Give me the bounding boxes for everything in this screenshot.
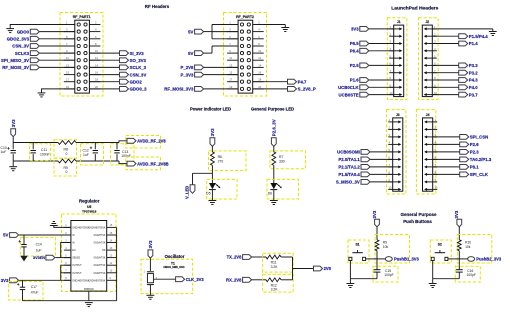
svg-text:3.2K: 3.2K (271, 265, 279, 269)
svg-text:20: 20 (95, 85, 98, 89)
net label P2.0/TA1.1 (338, 157, 360, 162)
wire junction to RF_PART2 pin3 (212, 31, 238, 33)
power tag 3V3 filter (11, 119, 16, 143)
wire 5V to U6 pin2 (19, 234, 71, 236)
svg-text:GND/HTSK: GND/HTSK (94, 243, 106, 245)
General Purpose LED section title (251, 107, 294, 112)
resistor R10 enclosure (457, 235, 492, 264)
wire S1 to output junction (366, 258, 377, 260)
svg-text:16: 16 (95, 71, 98, 75)
wire filter top rail right (76, 142, 119, 144)
svg-text:P3.3: P3.3 (469, 63, 478, 68)
wire J2 to net P3.3 (432, 64, 458, 66)
svg-text:J3: J3 (396, 113, 400, 117)
header J4 enclosure (416, 110, 435, 194)
wire R10 to junction (458, 251, 460, 259)
node tag AVDD_RF_2V8 (127, 138, 136, 143)
svg-text:UCB0STE: UCB0STE (339, 92, 359, 97)
svg-text:IN: IN (72, 243, 75, 245)
svg-text:17: 17 (229, 78, 232, 82)
node tag P_2V8 (195, 65, 204, 70)
svg-text:SPI_CLK: SPI_CLK (470, 172, 489, 177)
svg-text:P1.5/P4.4: P1.5/P4.4 (469, 34, 488, 39)
svg-text:C17: C17 (31, 285, 37, 289)
node tag SPI_MISO_3V (30, 58, 39, 63)
svg-text:GDO2: GDO2 (130, 79, 143, 84)
svg-text:RF_PART1: RF_PART1 (73, 15, 91, 19)
svg-text:EN: EN (72, 250, 76, 252)
node tag S_2V8_P (288, 87, 297, 92)
wire to AVDD bottom tag (119, 161, 127, 164)
node tag GDO2_3V3 (30, 36, 39, 41)
net label UCB0STE (339, 92, 359, 97)
svg-text:0: 0 (66, 170, 68, 174)
svg-text:12: 12 (95, 56, 98, 60)
svg-text:3V3: 3V3 (1, 278, 9, 283)
net label SPI_MISO_3V (1, 58, 29, 63)
svg-text:S1: S1 (355, 243, 359, 247)
resistor R8 (58, 141, 76, 156)
node tag UCB0CLK (360, 85, 369, 90)
svg-text:12: 12 (258, 56, 261, 60)
svg-text:U6: U6 (87, 205, 91, 209)
node tag 2V8 (314, 266, 323, 271)
net label P2.6 (470, 142, 479, 147)
node tag 5V supply B (195, 51, 204, 56)
ground at oscillator Y1 (147, 295, 155, 299)
wire J4 to net P8.1 (433, 166, 460, 168)
net label P6.5 (350, 41, 359, 46)
resistor R9 (375, 240, 388, 251)
net label P1.6 (350, 78, 359, 83)
header J1 refdes label (397, 20, 401, 24)
capacitor C15 (374, 269, 394, 279)
net label SI_3V3 (130, 51, 145, 56)
node tag B_2V8 (243, 277, 252, 282)
switch S1 enclosure (348, 240, 369, 263)
ground at RF_PART1 pin 19 (38, 93, 46, 97)
svg-text:1uF: 1uF (1, 150, 7, 154)
wire RF_PART1 to net GDO0_3 (89, 88, 119, 90)
svg-text:S2: S2 (438, 243, 442, 247)
node tag P_3V3 (195, 72, 204, 77)
wire R9 to junction (376, 251, 378, 259)
net label P4.3 (469, 78, 478, 83)
header J4 body (423, 118, 433, 191)
node tag CSN_3V (120, 72, 129, 77)
power tag 3V3 for S2 (454, 210, 462, 240)
LED D5 enclosure (207, 179, 237, 199)
wire RF_PART1 to net SO_3V3 (89, 59, 119, 61)
svg-text:100pF: 100pF (467, 273, 476, 277)
net label SPI_CSN (470, 135, 488, 140)
wire J4 to net P2.3 (433, 151, 460, 153)
net label GDO0_3 (130, 87, 148, 92)
ground at RF_PART2 pin 2 (281, 25, 289, 32)
wire RF_PART2 to net P4.7 (253, 81, 288, 83)
wire net UCB0STE to J1 (369, 94, 394, 96)
node tag SCLK_3 (120, 65, 129, 70)
header J3 body (393, 118, 403, 191)
net label S_2V8 (227, 255, 243, 260)
header J1 body (394, 25, 404, 97)
svg-text:CLK_3V3: CLK_3V3 (186, 277, 205, 282)
op-amp U6 body (71, 221, 107, 292)
svg-text:CMOS_SMD_OSC: CMOS_SMD_OSC (163, 266, 184, 269)
node tag V_LED (190, 185, 195, 194)
svg-text:P2.5: P2.5 (350, 63, 359, 68)
wire junction to RF_PART2 pin7 (212, 45, 238, 47)
node tag P8.1 (460, 165, 469, 170)
wire regulator ground rail (23, 300, 117, 302)
power tag 3V3 oscillator (148, 240, 153, 271)
svg-text:C11: C11 (41, 148, 47, 152)
regulator U6 pins and pin names (64, 224, 117, 291)
svg-text:RF_MOSI_3V: RF_MOSI_3V (2, 65, 29, 70)
svg-text:SENSE: SENSE (72, 258, 80, 260)
wire J4 to net P2.6 (433, 143, 460, 145)
svg-text:UCB0SOMI: UCB0SOMI (337, 150, 360, 155)
wire J2 to net P3.7 (432, 94, 458, 96)
node tag CLK_3V3 (176, 277, 185, 282)
svg-text:3V3: 3V3 (148, 240, 153, 248)
wire net P1.5/TA0.4 to J3 (370, 173, 393, 175)
wire LED D5 to ground (211, 190, 213, 201)
node tag P1.4 (459, 41, 468, 46)
ground arrow at C14 (20, 256, 28, 262)
power tag 3V3 for S1 (372, 210, 380, 240)
svg-text:S_MISO_3V: S_MISO_3V (336, 180, 360, 185)
net label P2.3 (470, 150, 479, 155)
node tag AVDD top enclosure (126, 136, 161, 149)
wire net RF_MOSI_3V to RF_PART1 (39, 66, 75, 68)
wire RF_PART1 to net GDO2 (89, 81, 119, 83)
header J3 refdes label (396, 113, 400, 117)
RF Headers section title (145, 4, 170, 9)
svg-text:10: 10 (258, 49, 261, 53)
wire junction to C16 (458, 259, 460, 270)
svg-text:RX_2V8: RX_2V8 (226, 278, 242, 283)
svg-text:100nF: 100nF (40, 153, 50, 157)
capacitor C16 (456, 269, 476, 279)
power tag 3V3 for LED D5 (210, 128, 215, 152)
wire net UCB0SOMI to J3 (370, 151, 393, 153)
svg-text:P2.0/TA1.1: P2.0/TA1.1 (338, 157, 360, 162)
wire LED D6 to ground (273, 190, 275, 201)
RF header connector RF_PART2 enclosure (224, 13, 267, 97)
svg-text:RF Headers: RF Headers (145, 4, 170, 9)
node tag 3V3 output (10, 278, 19, 283)
header J4 pins with arrows and pin numbers (424, 118, 438, 191)
net label P4.0 (469, 85, 478, 90)
svg-text:GND/HTSK: GND/HTSK (94, 235, 106, 237)
node tag P4.7 (288, 79, 297, 84)
resistor R9A enclosure (54, 158, 77, 176)
node tag P6.5 (360, 41, 369, 46)
node tag S_2V8 (243, 255, 252, 260)
wire 5V tag to bus junction (204, 31, 212, 33)
power tag for LED D6 (271, 119, 276, 152)
resistor R9 enclosure (375, 235, 410, 264)
header J1 enclosure (387, 18, 407, 100)
svg-text:GND/HEATSINK: GND/HEATSINK (88, 279, 106, 282)
svg-text:330: 330 (279, 160, 285, 164)
wire 3V3EN to U6 pin5 (55, 257, 71, 259)
net label P_2V8 (180, 65, 194, 70)
capacitor C14 enclosure (20, 237, 55, 256)
net label SO_3V3 (130, 58, 147, 63)
svg-text:GND/HEATSINK: GND/HEATSINK (72, 226, 90, 229)
capacitor C11 enclosure (30, 144, 51, 161)
net label RF_MOSI_3V3 (164, 87, 194, 92)
svg-text:13: 13 (229, 63, 232, 67)
node tag SO_3V3 (120, 58, 129, 63)
ground at S2 (429, 284, 437, 288)
wire junction to RF_PART2 pin1 (212, 24, 238, 26)
svg-text:UCB0CLK: UCB0CLK (338, 85, 359, 90)
svg-text:GND/HTSK: GND/HTSK (94, 258, 106, 260)
svg-text:3V3: 3V3 (210, 128, 215, 136)
net label P4.7 (298, 79, 307, 84)
svg-text:3V3: 3V3 (351, 27, 359, 32)
net label 3V3EN (33, 256, 45, 260)
svg-text:1uF: 1uF (36, 248, 42, 252)
resistor R9A (58, 159, 76, 174)
svg-text:P4.3: P4.3 (469, 78, 478, 83)
svg-text:P2.6_3V: P2.6_3V (271, 119, 276, 136)
svg-text:GND/HEATSINK: GND/HEATSINK (72, 279, 90, 282)
wire net P2.0/TA1.1 to J3 (370, 158, 393, 160)
wire RF_PART1 pin19 to ground (42, 89, 75, 93)
net label 3V3 (351, 27, 359, 32)
svg-text:P6.4: P6.4 (350, 49, 359, 54)
net label P8.1 (470, 165, 479, 170)
net label TA0.2/P1.3 (470, 157, 492, 162)
resistor R7 enclosure (270, 151, 306, 169)
wire LED branch horizontal (193, 172, 213, 174)
header J2 pins with arrows and pin numbers (424, 25, 438, 96)
node tag GDO2 (120, 79, 129, 84)
wire filter bottom rail left (13, 160, 58, 162)
wire U6 powerpad to rail (88, 291, 90, 301)
net label P1.5/TA0.4 (338, 172, 360, 177)
wire junction to C15 (376, 259, 378, 270)
header J4 refdes label (426, 113, 430, 117)
svg-text:GND/HTSK: GND/HTSK (94, 265, 106, 267)
svg-text:TPS79518: TPS79518 (82, 210, 97, 214)
svg-text:V_LED: V_LED (185, 186, 190, 199)
General Purpose Push Buttons title (400, 212, 437, 224)
wire net GDO0 to RF_PART1 (39, 31, 75, 33)
resistor R12 enclosure (263, 274, 294, 292)
wire junction to RF_PART2 pin5 (212, 38, 238, 40)
svg-text:1uF: 1uF (83, 153, 89, 157)
wire U6 right pins bus (116, 227, 118, 300)
node tag P2.3 (460, 150, 469, 155)
resistor R6 enclosure (209, 151, 247, 171)
switch S2 refdes (438, 243, 442, 247)
wire junction to PushB1_3V3 tag (377, 258, 385, 260)
capacitor C17 enclosure (9, 282, 43, 301)
svg-text:TX_2V8: TX_2V8 (227, 255, 243, 260)
header J3 pins with arrows and pin numbers (388, 118, 401, 191)
svg-text:GND/HEATSINK: GND/HEATSINK (88, 226, 106, 229)
wire filter top rail left (13, 142, 58, 144)
wire filter bottom rail right (76, 160, 119, 162)
wire U6 pin1 to ground (54, 226, 71, 228)
net label 2V8 (324, 266, 332, 271)
node tag SI_3V3 (120, 51, 129, 56)
svg-text:R8: R8 (64, 148, 68, 152)
wire R11 to junction (281, 256, 293, 258)
ground at LED D6 (270, 201, 278, 205)
wire junction vertical pins 1-5 (211, 25, 213, 39)
svg-text:P2.6: P2.6 (470, 142, 479, 147)
node tag P4.3 (459, 78, 468, 83)
wire J2 pin1 to ground (432, 28, 493, 30)
wire net SCLK3 to RF_PART1 (39, 52, 75, 54)
net label SCLK3 (15, 51, 30, 56)
wire R12 to junction (281, 279, 293, 281)
svg-text:P8.1: P8.1 (470, 165, 479, 170)
wire S2 ground run (433, 261, 460, 284)
wire net P1.6 to J1 (369, 79, 394, 81)
node tag SPI_CSN (460, 135, 469, 140)
net label AVDD_RF_2V8B (137, 161, 169, 166)
LED D6 enclosure (267, 179, 299, 199)
wire R6 to LED D5 (211, 165, 213, 183)
net label P1.4 (469, 41, 478, 46)
svg-text:10: 10 (95, 49, 98, 53)
wire RF_PART2 pin2 to ground (253, 24, 286, 26)
net label UCB0SOMI (337, 150, 360, 155)
svg-text:C10: C10 (1, 146, 7, 150)
switch S1 refdes (355, 243, 359, 247)
net label B_2V8 (226, 278, 242, 283)
net label CSN_3V (130, 72, 147, 77)
net label P1.5/P4.4 (469, 34, 488, 39)
svg-text:5V: 5V (3, 233, 8, 238)
node tag GDO0_3 (120, 87, 129, 92)
svg-text:D5: D5 (206, 191, 210, 195)
RF_PART2 pin contacts (240, 23, 250, 91)
svg-text:11: 11 (229, 56, 232, 60)
net label PushB1_3V3 (394, 257, 420, 262)
wire J4 to net SPI_CLK (433, 173, 460, 175)
svg-text:P2.1/TA1.2: P2.1/TA1.2 (338, 165, 360, 170)
Oscillator section title (165, 254, 185, 259)
net label GDO2_3V3 (7, 37, 30, 42)
resistor R12 (266, 278, 281, 292)
wire S_2V8 to R11 (252, 256, 266, 258)
svg-text:Regulator: Regulator (79, 198, 100, 203)
svg-text:Push Buttons: Push Buttons (403, 219, 432, 224)
svg-text:P3.2: P3.2 (469, 70, 478, 75)
svg-text:PushB1_3V3: PushB1_3V3 (394, 257, 420, 262)
net label PushB2_3V3 (476, 257, 502, 262)
wire RF_PART1 pin1 to ground (10, 25, 75, 29)
svg-text:18: 18 (95, 78, 98, 82)
svg-text:3V3: 3V3 (11, 119, 16, 127)
wire net P2.5 to J1 (369, 64, 394, 66)
RF_PART1 pin stubs and pin numbers (64, 21, 101, 89)
wire junction vertical pin7 (211, 46, 213, 53)
svg-text:2V8: 2V8 (324, 266, 332, 271)
svg-text:3V3: 3V3 (454, 210, 459, 218)
svg-text:16: 16 (258, 71, 261, 75)
wire R7 to LED D6 (273, 165, 275, 183)
svg-text:J2: J2 (425, 20, 429, 24)
LaunchPad Headers section title (391, 5, 438, 11)
resistor R8 enclosure (54, 140, 77, 159)
wire net P6.4 to J1 (369, 50, 394, 52)
svg-text:TA0.2/P1.3: TA0.2/P1.3 (470, 157, 492, 162)
node tag 3V3EN (46, 255, 55, 260)
regulator U6 part number (82, 210, 97, 214)
svg-text:100pF: 100pF (384, 273, 393, 277)
wire J2 to net P4.3 (432, 79, 458, 81)
svg-text:P1.4: P1.4 (469, 41, 478, 46)
node tag P2.1/TA1.2 (361, 165, 370, 170)
net label 5V regulator (3, 233, 8, 238)
wire RF_PART1 to net SCLK_3 (89, 66, 119, 68)
net label S_MISO_3V (336, 180, 360, 185)
node tag P2.5 (360, 63, 369, 68)
svg-text:270: 270 (218, 160, 224, 164)
svg-text:R7: R7 (279, 155, 283, 159)
svg-text:5V: 5V (188, 29, 193, 34)
net label P6.4 (350, 49, 359, 54)
wire U6 output to 3V3 tag (19, 279, 71, 281)
wire Y1 to ground (149, 285, 151, 295)
RF header connector RF_PART1 enclosure (60, 13, 103, 97)
capacitor C15 enclosure (373, 266, 398, 282)
header J2 enclosure (419, 18, 439, 100)
node tag RF_MOSI_3V (30, 65, 39, 70)
svg-text:J4: J4 (426, 113, 430, 117)
net label CLK_3V3 (186, 277, 205, 282)
svg-text:5V: 5V (188, 51, 193, 56)
wire net P_2V8 to RF_PART2 (204, 66, 239, 68)
crystal oscillator Y1 (144, 271, 158, 285)
svg-text:P1.6: P1.6 (350, 78, 359, 83)
ground at regulator rail (85, 303, 93, 307)
svg-text:15: 15 (66, 71, 69, 75)
svg-text:C12: C12 (83, 148, 89, 152)
svg-text:R9: R9 (64, 166, 68, 170)
node tag P1.5/P4.4 (459, 34, 468, 39)
wire net GDO2_3V3 to RF_PART1 (39, 38, 75, 40)
LED D5 (206, 183, 220, 195)
ground at J2 pin 1 (489, 29, 497, 36)
wire S1 ground run (350, 261, 377, 284)
net label 5V B (188, 51, 193, 56)
node tag CSN_3V (30, 44, 39, 49)
LED D6 (268, 183, 282, 195)
svg-text:GDO0_3: GDO0_3 (130, 87, 148, 92)
svg-text:47uF: 47uF (31, 291, 39, 295)
svg-text:P6.5: P6.5 (350, 41, 359, 46)
wire S2 to output junction (448, 258, 459, 260)
node tag UCB0STE (360, 92, 369, 97)
wire junction to 2V8 tag (293, 268, 314, 270)
ground at LED D5 (209, 201, 217, 205)
svg-text:0: 0 (66, 152, 68, 156)
node tag P4.0 (459, 85, 468, 90)
header J3 enclosure (387, 110, 407, 194)
svg-text:SCLK3: SCLK3 (15, 51, 30, 56)
svg-text:14: 14 (258, 63, 261, 67)
